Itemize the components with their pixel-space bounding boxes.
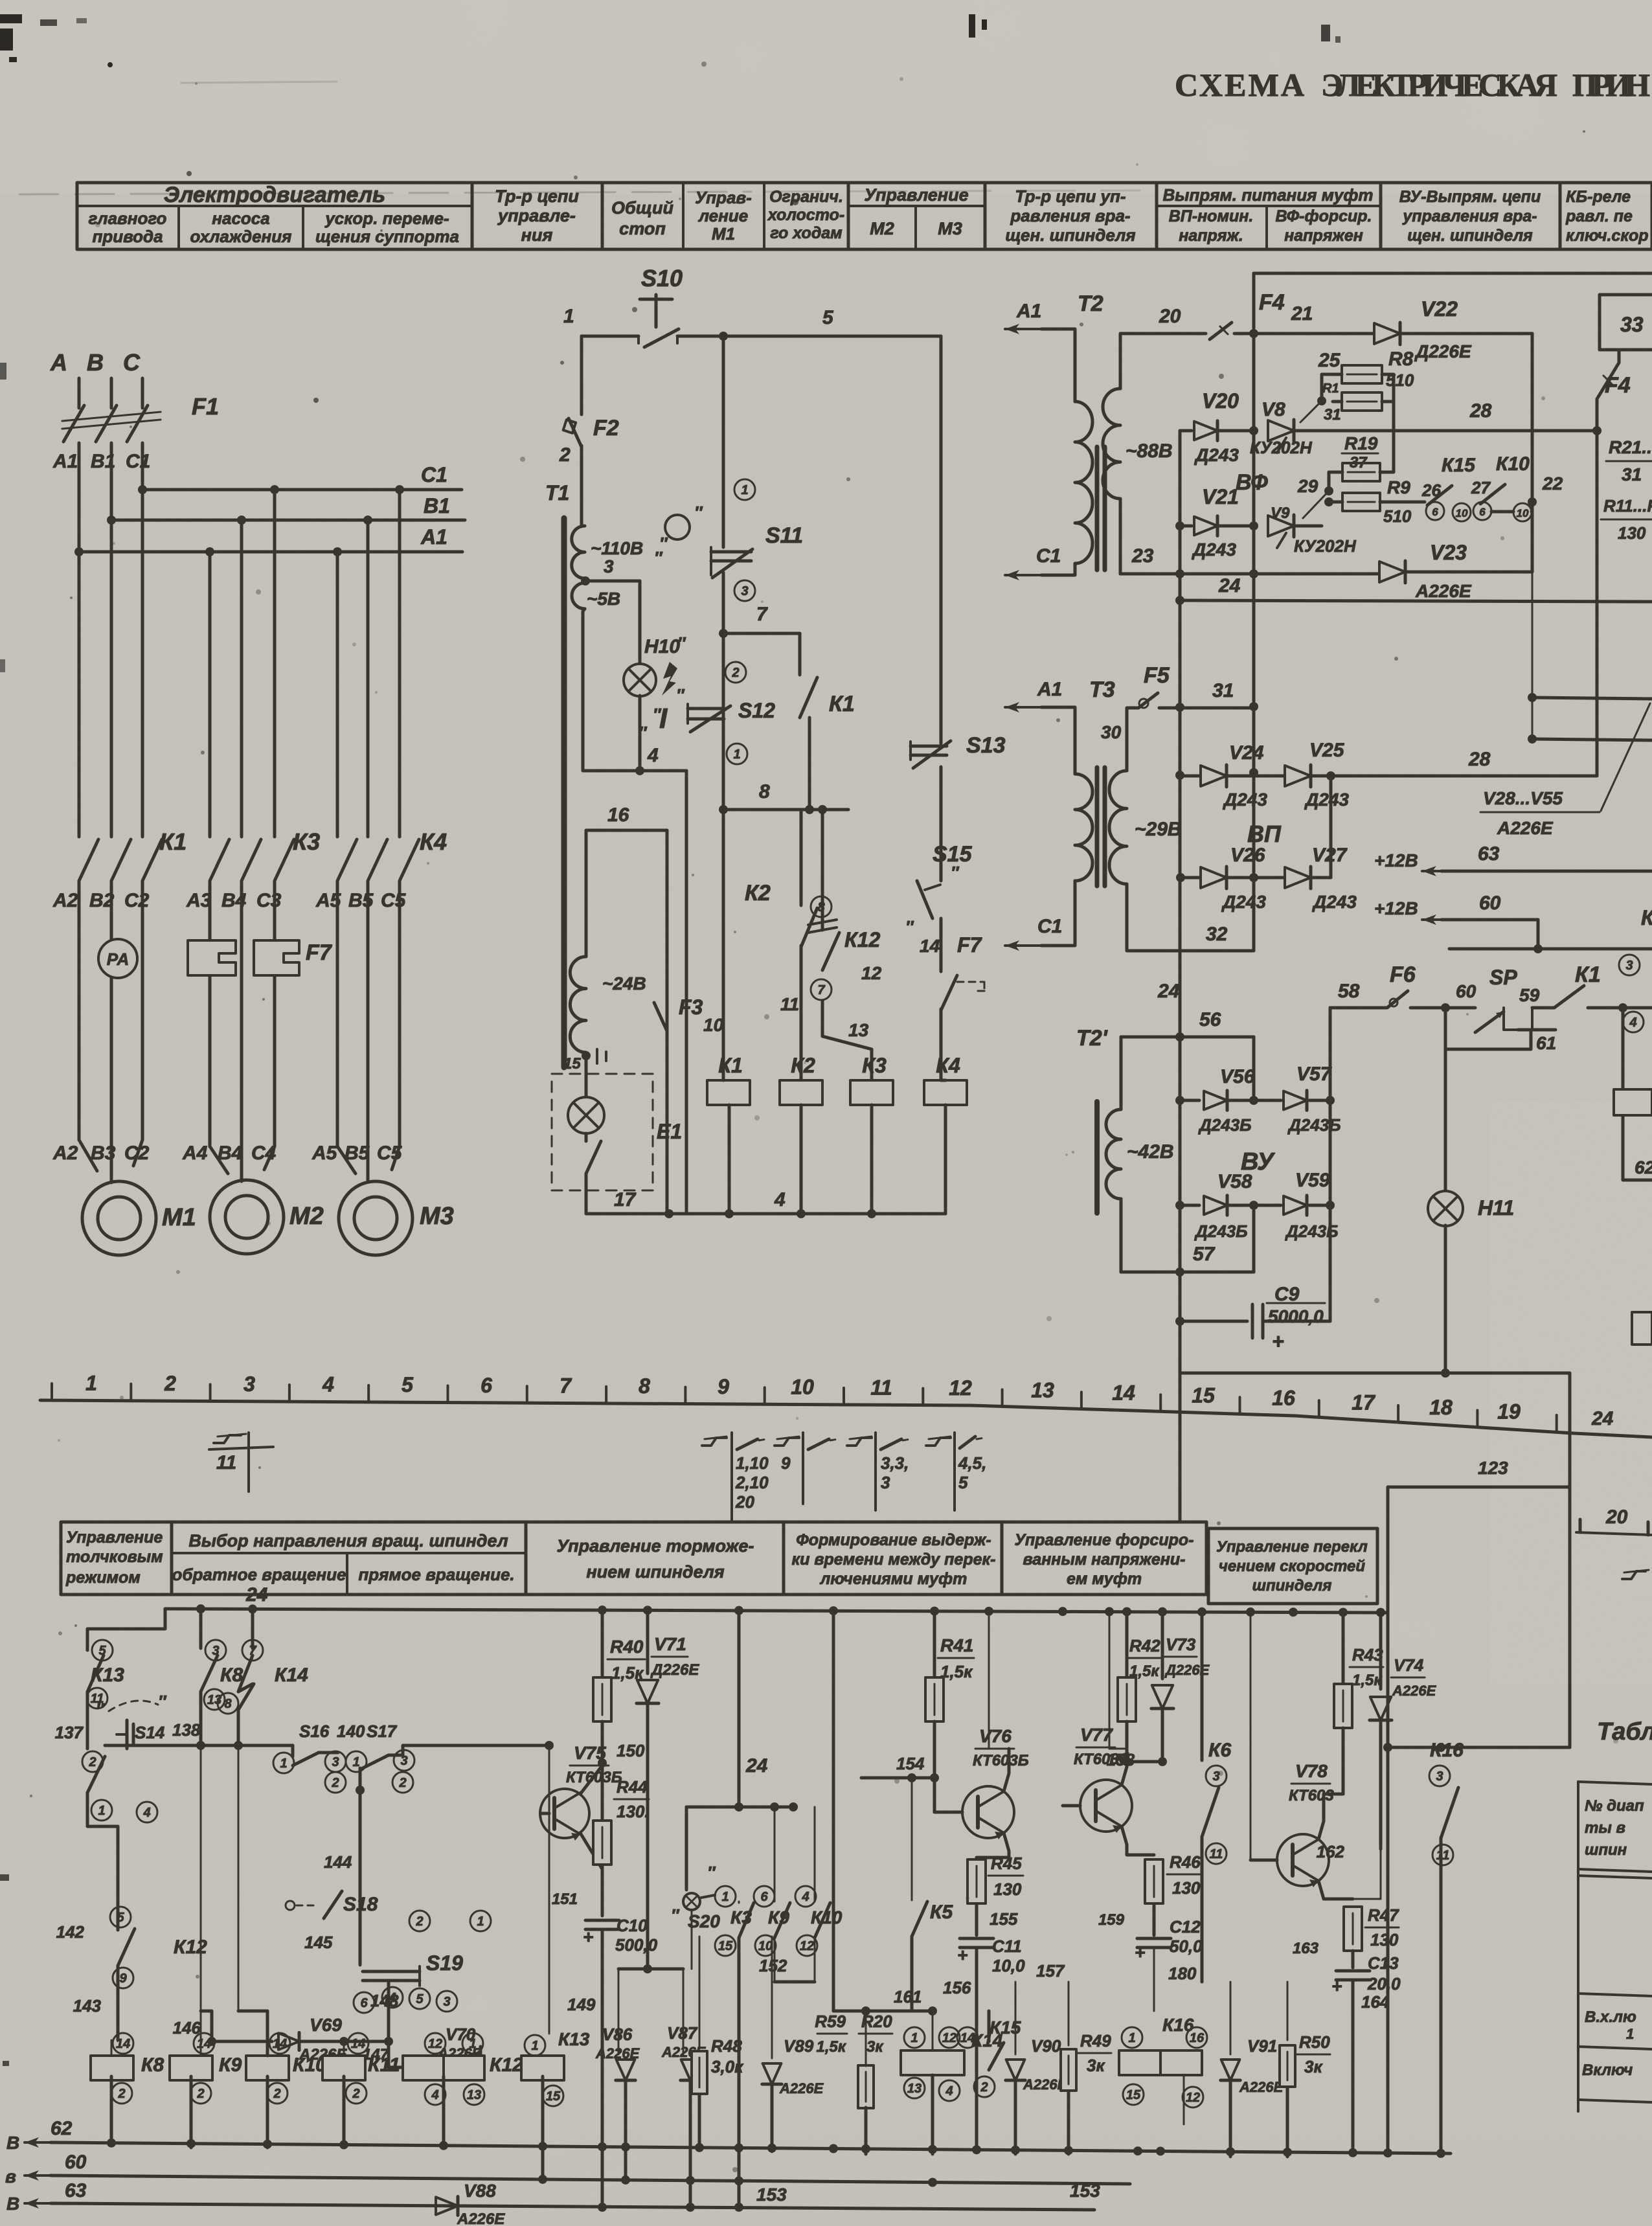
svg-text:F1: F1 bbox=[192, 393, 219, 420]
svg-text:5: 5 bbox=[958, 1473, 968, 1492]
svg-text:~42В: ~42В bbox=[1127, 1141, 1174, 1163]
svg-text:А226Е: А226Е bbox=[1239, 2079, 1284, 2095]
svg-text:140: 140 bbox=[337, 1721, 365, 1741]
svg-text:ванным напряжени-: ванным напряжени- bbox=[1023, 1550, 1186, 1569]
svg-text:8: 8 bbox=[759, 781, 770, 802]
svg-text:Д243Б: Д243Б bbox=[1194, 1221, 1248, 1241]
svg-text:11: 11 bbox=[870, 1376, 892, 1399]
svg-text:1: 1 bbox=[531, 2039, 538, 2053]
svg-text:3: 3 bbox=[1625, 959, 1633, 973]
svg-text:2: 2 bbox=[559, 444, 571, 466]
svg-text:РА: РА bbox=[107, 949, 129, 969]
svg-text:Д243Б: Д243Б bbox=[1287, 1115, 1341, 1135]
bus B1 bbox=[111, 519, 465, 522]
wire 20 bbox=[1120, 334, 1206, 389]
svg-text:стоп: стоп bbox=[619, 219, 666, 238]
thyristor V8 bbox=[1217, 429, 1254, 433]
bus 4 bottom bbox=[669, 1212, 945, 1216]
svg-text:V71: V71 bbox=[654, 1634, 686, 1654]
svg-text:ты в: ты в bbox=[1585, 1819, 1625, 1837]
pin 1 circled bbox=[734, 479, 755, 500]
wire 56 bbox=[1121, 1036, 1254, 1039]
svg-text:2: 2 bbox=[88, 1755, 96, 1769]
svg-text:S11: S11 bbox=[765, 523, 803, 548]
svg-text:3к: 3к bbox=[1087, 2056, 1105, 2075]
svg-text:24: 24 bbox=[745, 1755, 768, 1777]
wire drop A5 bbox=[336, 552, 339, 837]
R8 pair wiring bbox=[1322, 374, 1342, 401]
svg-text:″: ″ bbox=[951, 863, 960, 882]
svg-text:14: 14 bbox=[920, 936, 940, 956]
svg-text:К8: К8 bbox=[141, 2054, 164, 2076]
wire 61 bbox=[1518, 1028, 1556, 1032]
svg-text:Формирование выдерж-: Формирование выдерж- bbox=[796, 1531, 991, 1549]
svg-text:К8: К8 bbox=[220, 1664, 243, 1686]
svg-text:20: 20 bbox=[735, 1492, 754, 1512]
node 15 bbox=[582, 1051, 591, 1060]
svg-text:№ диап: № диап bbox=[1585, 1797, 1644, 1815]
svg-text:15: 15 bbox=[563, 1055, 581, 1073]
svg-text:S12: S12 bbox=[738, 699, 775, 722]
svg-text:Управление: Управление bbox=[66, 1528, 163, 1547]
vu right vertical bbox=[1329, 1008, 1332, 1321]
svg-text:V89: V89 bbox=[784, 2036, 814, 2056]
svg-text:15: 15 bbox=[1192, 1383, 1216, 1407]
bridge VP right side bbox=[1330, 776, 1333, 878]
svg-text:+: + bbox=[583, 1927, 593, 1947]
svg-text:60: 60 bbox=[1479, 892, 1501, 914]
svg-text:~29В: ~29В bbox=[1135, 819, 1182, 840]
svg-text:М1: М1 bbox=[162, 1204, 196, 1231]
vertical feeds right bottom bbox=[1386, 1747, 1390, 2149]
svg-text:62: 62 bbox=[1635, 1157, 1652, 1177]
svg-text:S13: S13 bbox=[966, 733, 1006, 758]
svg-text:12: 12 bbox=[800, 1939, 814, 1953]
capacitor C13 bbox=[1336, 1971, 1370, 1980]
svg-text:А2: А2 bbox=[52, 890, 78, 911]
bus 62 bbox=[25, 2137, 51, 2148]
svg-text:F5: F5 bbox=[1144, 663, 1170, 688]
svg-text:К16: К16 bbox=[1430, 1740, 1464, 1761]
switch S20 bbox=[685, 1807, 688, 1890]
svg-text:Управ-: Управ- bbox=[695, 188, 752, 207]
svg-text:130: 130 bbox=[1370, 1930, 1399, 1949]
bus 60 bbox=[25, 2170, 51, 2181]
svg-text:157: 157 bbox=[1036, 1961, 1065, 1981]
svg-text:″: ″ bbox=[677, 633, 686, 653]
svg-text:А226Е: А226Е bbox=[457, 2210, 505, 2226]
top header table frame bbox=[77, 183, 1652, 249]
svg-text:V9: V9 bbox=[1271, 505, 1290, 522]
fuse F5 bbox=[1127, 708, 1138, 771]
svg-text:S20: S20 bbox=[688, 1911, 720, 1931]
svg-text:23: 23 bbox=[1131, 545, 1154, 567]
svg-text:шпин: шпин bbox=[1585, 1841, 1627, 1859]
capacitor C10 bbox=[585, 1920, 619, 1929]
wire 17 bbox=[586, 1190, 669, 1214]
svg-text:R50: R50 bbox=[1299, 2032, 1330, 2052]
svg-text:″: ″ bbox=[158, 1692, 167, 1711]
svg-text:12: 12 bbox=[428, 2037, 442, 2051]
svg-text:лючениями муфт: лючениями муфт bbox=[820, 1570, 967, 1588]
wire bottom to 24 corner bbox=[1180, 1321, 1570, 1373]
svg-text:151: 151 bbox=[552, 1891, 578, 1908]
bridge VP diode V26 bbox=[1181, 876, 1199, 880]
svg-text:145: 145 bbox=[304, 1933, 333, 1952]
arrow C1 T3 bbox=[1005, 940, 1041, 951]
coil K14 bbox=[904, 2027, 925, 2048]
diode V74 bbox=[1379, 1611, 1383, 1689]
svg-text:С4: С4 bbox=[251, 1142, 277, 1164]
cam chart mark 11 bbox=[214, 1435, 241, 1443]
svg-text:10: 10 bbox=[758, 1939, 773, 1953]
svg-text:4: 4 bbox=[431, 2088, 438, 2102]
svg-text:Д243: Д243 bbox=[1194, 445, 1239, 465]
svg-text:1: 1 bbox=[741, 483, 748, 497]
svg-text:59: 59 bbox=[1519, 985, 1540, 1005]
svg-text:В: В bbox=[6, 2194, 19, 2214]
bus 24 bottom bbox=[165, 1609, 1388, 1613]
svg-text:14: 14 bbox=[351, 2037, 365, 2051]
wire phase B bbox=[110, 443, 113, 837]
contact K5 bbox=[911, 1778, 913, 1900]
lamp H11 bbox=[1444, 1049, 1447, 1192]
svg-text:″: ″ bbox=[905, 917, 914, 937]
svg-text:А1: А1 bbox=[420, 525, 447, 549]
wire 4 bbox=[583, 609, 686, 771]
svg-text:К1: К1 bbox=[1575, 962, 1601, 987]
wire S11 down bbox=[722, 573, 725, 942]
svg-text:V58: V58 bbox=[1217, 1171, 1252, 1192]
wire phase B top bbox=[110, 378, 113, 408]
svg-text:R21...: R21... bbox=[1609, 437, 1652, 457]
svg-text:V56: V56 bbox=[1220, 1066, 1255, 1087]
contactor K4 contacts bbox=[337, 839, 357, 881]
bridge VP diode V27 bbox=[1254, 876, 1284, 880]
coil K4 bbox=[924, 1080, 967, 1105]
svg-text:обратное вращение: обратное вращение bbox=[172, 1565, 346, 1584]
svg-text:R42: R42 bbox=[1129, 1636, 1160, 1655]
svg-text:11: 11 bbox=[216, 1452, 236, 1473]
svg-text:11: 11 bbox=[780, 994, 799, 1014]
svg-text:ем муфт: ем муфт bbox=[1067, 1570, 1142, 1588]
svg-text:холосто-: холосто- bbox=[767, 206, 844, 224]
svg-text:ВУ-Выпрям. цепи: ВУ-Выпрям. цепи bbox=[1399, 188, 1541, 206]
svg-text:К15: К15 bbox=[1442, 455, 1476, 476]
diode V22 bbox=[1353, 332, 1373, 335]
svg-text:2: 2 bbox=[415, 1914, 423, 1929]
wire 123 right branch bbox=[1568, 1487, 1572, 1747]
svg-text:V28...V55: V28...V55 bbox=[1483, 788, 1563, 808]
svg-text:Управление торможе-: Управление торможе- bbox=[557, 1536, 754, 1556]
contact K12 bbox=[821, 810, 824, 930]
svg-text:8: 8 bbox=[224, 1697, 232, 1711]
second table frame bbox=[61, 1522, 1206, 1595]
diode V86 bbox=[618, 1969, 620, 2054]
svg-text:Н10: Н10 bbox=[644, 636, 680, 657]
branch S11 bbox=[722, 336, 725, 547]
wire drop A3 bbox=[209, 552, 212, 837]
svg-text:С12: С12 bbox=[1170, 1917, 1201, 1936]
svg-text:F4: F4 bbox=[1259, 290, 1285, 315]
indicator circle bbox=[665, 515, 690, 539]
svg-text:148: 148 bbox=[370, 1991, 399, 2010]
diode V21 bbox=[1180, 525, 1192, 528]
svg-text:130: 130 bbox=[1618, 523, 1646, 543]
svg-text:3: 3 bbox=[604, 556, 614, 576]
svg-text:20: 20 bbox=[1159, 306, 1181, 327]
svg-text:3: 3 bbox=[443, 1995, 450, 2009]
wire 57 bbox=[1121, 1271, 1254, 1274]
svg-text:~110В: ~110В bbox=[591, 538, 643, 558]
bridge VU diode V58 bbox=[1180, 1204, 1199, 1207]
pin 2 circled bbox=[725, 662, 746, 683]
svg-text:2: 2 bbox=[331, 1776, 339, 1790]
svg-text:Д226Е: Д226Е bbox=[650, 1661, 699, 1679]
svg-text:37: 37 bbox=[1350, 454, 1368, 471]
svg-text:+: + bbox=[1135, 1942, 1145, 1962]
svg-text:60: 60 bbox=[1456, 981, 1477, 1001]
svg-text:Д243: Д243 bbox=[1304, 789, 1349, 810]
diode V88 on bus 63 bbox=[436, 2197, 458, 2216]
svg-text:щен. шпинделя: щен. шпинделя bbox=[1005, 225, 1135, 245]
svg-text:510: 510 bbox=[1383, 506, 1412, 526]
svg-text:5: 5 bbox=[402, 1373, 414, 1396]
svg-text:К16: К16 bbox=[1162, 2015, 1194, 2035]
pin 4 circled right bbox=[1623, 1012, 1644, 1032]
svg-text:+: + bbox=[1331, 1976, 1342, 1996]
svg-text:32: 32 bbox=[1206, 924, 1228, 945]
svg-text:привода: привода bbox=[92, 227, 163, 246]
svg-text:F7: F7 bbox=[306, 940, 333, 965]
pin 3 circled right bbox=[1619, 955, 1640, 975]
svg-text:1: 1 bbox=[911, 2031, 918, 2045]
wire drop B4 bbox=[240, 520, 243, 837]
svg-text:3к: 3к bbox=[1304, 2057, 1323, 2076]
svg-text:2: 2 bbox=[398, 1776, 406, 1790]
svg-text:163: 163 bbox=[1293, 1940, 1319, 1957]
svg-text:R11...R: R11...R bbox=[1603, 496, 1652, 516]
svg-text:14: 14 bbox=[116, 2037, 130, 2051]
coil K16 bbox=[1122, 2027, 1142, 2048]
svg-text:5: 5 bbox=[416, 1992, 424, 2006]
svg-text:го ходам: го ходам bbox=[770, 224, 842, 242]
wire 16 loop bbox=[586, 830, 667, 997]
svg-text:15: 15 bbox=[718, 1939, 733, 1953]
box 33 bbox=[1600, 295, 1652, 350]
svg-text:КТ603б: КТ603б bbox=[1074, 1751, 1129, 1768]
svg-text:Управление форсиро-: Управление форсиро- bbox=[1015, 1531, 1194, 1549]
svg-text:В1: В1 bbox=[424, 494, 450, 517]
contact K15 small bbox=[957, 2027, 978, 2048]
svg-text:А226Е: А226Е bbox=[1497, 818, 1554, 838]
svg-text:24: 24 bbox=[1218, 575, 1241, 596]
svg-text:2: 2 bbox=[196, 2087, 204, 2101]
svg-text:2,10: 2,10 bbox=[735, 1473, 769, 1492]
svg-text:КУ202Н: КУ202Н bbox=[1250, 438, 1313, 457]
coil right edge bbox=[1614, 1089, 1652, 1115]
wire 21 bbox=[1234, 332, 1353, 335]
wire 28 right riser bbox=[1596, 431, 1599, 776]
scale ruler bbox=[40, 1400, 1652, 1437]
svg-text:в: в bbox=[5, 2166, 16, 2186]
svg-text:I: I bbox=[659, 703, 668, 734]
svg-text:F2: F2 bbox=[593, 416, 619, 440]
svg-text:137: 137 bbox=[55, 1723, 84, 1742]
svg-text:А2: А2 bbox=[52, 1142, 78, 1164]
svg-text:ния: ния bbox=[521, 225, 553, 245]
svg-text:режимом: режимом bbox=[65, 1569, 141, 1587]
svg-text:С1: С1 bbox=[126, 451, 150, 472]
resistor R48 bbox=[699, 1936, 701, 2048]
stop button S10 bbox=[655, 295, 658, 327]
motor M3 bbox=[339, 1181, 413, 1255]
resistor R8 upper bbox=[1342, 365, 1382, 383]
svg-text:А4: А4 bbox=[182, 1142, 208, 1164]
svg-text:V78: V78 bbox=[1295, 1761, 1328, 1781]
svg-text:V24: V24 bbox=[1229, 742, 1264, 764]
svg-text:Т2: Т2 bbox=[1078, 291, 1103, 316]
svg-text:24: 24 bbox=[245, 1584, 268, 1606]
svg-text:1,5к: 1,5к bbox=[1352, 1672, 1383, 1689]
cam switch symbol right bbox=[1622, 1571, 1646, 1579]
svg-text:13: 13 bbox=[1031, 1379, 1054, 1402]
svg-text:V73: V73 bbox=[1166, 1635, 1196, 1654]
coil K12 bbox=[425, 2033, 446, 2054]
svg-text:28: 28 bbox=[1469, 400, 1492, 422]
svg-text:напряж.: напряж. bbox=[1179, 227, 1243, 245]
svg-text:А226Е: А226Е bbox=[1392, 1683, 1437, 1699]
svg-text:3: 3 bbox=[741, 584, 748, 598]
capacitor C9 bbox=[1180, 1320, 1247, 1323]
svg-text:V75: V75 bbox=[574, 1743, 606, 1763]
arrow C1 T2 bbox=[1005, 570, 1041, 580]
svg-text:21: 21 bbox=[1291, 303, 1313, 324]
wire 2 bbox=[580, 446, 583, 526]
lightning symbol bbox=[662, 662, 677, 696]
svg-text:С2: С2 bbox=[124, 890, 150, 911]
svg-text:Общий: Общий bbox=[611, 198, 673, 218]
svg-text:S19: S19 bbox=[426, 1951, 463, 1975]
svg-text:1,5к: 1,5к bbox=[816, 2038, 846, 2056]
chain R40 V71 bbox=[601, 1609, 604, 1677]
svg-text:50,0: 50,0 bbox=[1170, 1936, 1203, 1956]
svg-text:А226Е: А226Е bbox=[779, 2080, 824, 2096]
svg-text:К6: К6 bbox=[1208, 1740, 1231, 1761]
svg-text:3: 3 bbox=[881, 1473, 890, 1492]
svg-text:12: 12 bbox=[861, 963, 882, 983]
svg-text:V86: V86 bbox=[602, 2025, 633, 2044]
node 3 bbox=[581, 576, 590, 585]
svg-text:154: 154 bbox=[896, 1754, 925, 1773]
svg-text:В: В bbox=[6, 2133, 19, 2153]
svg-text:15: 15 bbox=[546, 2089, 561, 2104]
coil K11 bbox=[348, 2033, 368, 2054]
svg-text:8: 8 bbox=[639, 1374, 650, 1398]
svg-text:152: 152 bbox=[759, 1956, 787, 1975]
svg-text:Выбор направления вращ. шпинде: Выбор направления вращ. шпиндел bbox=[188, 1531, 508, 1550]
svg-text:V25: V25 bbox=[1309, 740, 1345, 761]
svg-text:14: 14 bbox=[960, 2031, 975, 2045]
svg-text:Д243: Д243 bbox=[1223, 789, 1267, 810]
distribution wire right bbox=[1449, 948, 1652, 951]
wire 31 bbox=[1159, 707, 1254, 710]
svg-text:Д243: Д243 bbox=[1192, 539, 1236, 560]
svg-text:19: 19 bbox=[1497, 1400, 1521, 1423]
svg-text:К10: К10 bbox=[1496, 453, 1530, 475]
svg-text:61: 61 bbox=[1536, 1033, 1556, 1053]
svg-text:V88: V88 bbox=[464, 2181, 496, 2201]
svg-text:Н11: Н11 bbox=[1478, 1196, 1514, 1220]
svg-text:5: 5 bbox=[117, 1911, 124, 1925]
svg-text:V59: V59 bbox=[1295, 1170, 1330, 1191]
svg-text:6: 6 bbox=[481, 1374, 492, 1397]
svg-text:10: 10 bbox=[703, 1015, 724, 1035]
transformer T1 winding 24V bbox=[570, 957, 586, 1052]
capacitor C12 bbox=[1137, 1938, 1171, 1948]
svg-text:нием шпинделя: нием шпинделя bbox=[586, 1562, 724, 1582]
svg-text:V20: V20 bbox=[1202, 389, 1239, 413]
svg-text:3,3,: 3,3, bbox=[881, 1453, 909, 1473]
svg-text:+12В: +12В bbox=[1374, 898, 1418, 918]
svg-text:ключ.скор: ключ.скор bbox=[1566, 227, 1649, 245]
contact K3 bbox=[715, 1886, 736, 1907]
contactor K1 contacts bbox=[79, 839, 98, 881]
svg-text:164: 164 bbox=[1361, 1992, 1390, 2012]
coil K3 bbox=[850, 1080, 893, 1105]
wire drop C3 bbox=[273, 490, 277, 837]
cam chart group 3 bbox=[847, 1438, 872, 1446]
svg-text:4: 4 bbox=[142, 1806, 150, 1820]
wire drop B5 bbox=[367, 520, 370, 837]
svg-text:К12: К12 bbox=[174, 1936, 207, 1958]
svg-text:Д226Е: Д226Е bbox=[1414, 341, 1472, 361]
svg-text:3: 3 bbox=[332, 1755, 339, 1769]
svg-text:КУ202Н: КУ202Н bbox=[1294, 536, 1357, 556]
wire 62 right bbox=[1623, 1008, 1652, 1180]
svg-text:С2: С2 bbox=[124, 1142, 150, 1164]
svg-text:1,5к: 1,5к bbox=[940, 1662, 973, 1681]
diode V90 bbox=[1015, 1982, 1017, 2054]
gate blade V9 bbox=[1303, 491, 1329, 518]
svg-text:Выпрям. питания муфт: Выпрям. питания муфт bbox=[1162, 185, 1373, 205]
svg-text:4: 4 bbox=[322, 1372, 334, 1396]
svg-text:6: 6 bbox=[1479, 506, 1486, 518]
svg-text:155: 155 bbox=[990, 1909, 1018, 1929]
svg-text:123: 123 bbox=[1478, 1458, 1508, 1478]
svg-text:16: 16 bbox=[1272, 1386, 1295, 1409]
svg-text:R59: R59 bbox=[815, 2012, 846, 2031]
svg-text:4: 4 bbox=[801, 1890, 809, 1904]
svg-text:13: 13 bbox=[848, 1020, 869, 1040]
svg-text:К3: К3 bbox=[862, 1054, 887, 1077]
svg-text:3: 3 bbox=[243, 1372, 255, 1396]
svg-text:″: ″ bbox=[707, 1863, 716, 1882]
feed line 24 vertical bbox=[1179, 431, 1182, 1373]
wire 28 lower bbox=[1331, 775, 1597, 778]
svg-text:9: 9 bbox=[119, 1971, 127, 1986]
svg-text:R40: R40 bbox=[610, 1637, 644, 1657]
svg-text:60: 60 bbox=[65, 2152, 87, 2173]
svg-text:S17: S17 bbox=[367, 1721, 398, 1741]
svg-text:2: 2 bbox=[980, 2080, 988, 2095]
diode V91 bbox=[1230, 1982, 1232, 2054]
svg-text:Т1: Т1 bbox=[545, 481, 569, 505]
svg-text:ускор. переме-: ускор. переме- bbox=[324, 209, 449, 228]
contact K1 aux bbox=[798, 633, 802, 675]
svg-text:К4: К4 bbox=[936, 1054, 960, 1077]
svg-text:14: 14 bbox=[273, 2037, 287, 2051]
